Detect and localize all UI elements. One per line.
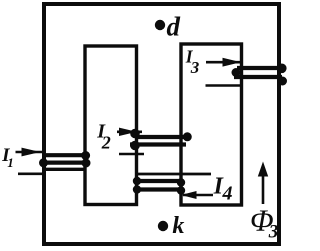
- winding W3 lead-out wire: [206, 84, 242, 87]
- core right window: [181, 44, 242, 205]
- current I4 arrow on lead-in wire: [183, 192, 213, 199]
- current I3 label: [185, 46, 200, 77]
- svg-text:1: 1: [7, 155, 14, 170]
- svg-text:2: 2: [101, 133, 111, 153]
- current I3 arrow on lead-in wire: [206, 58, 242, 66]
- core left window: [85, 46, 137, 205]
- svg-text:3: 3: [190, 58, 200, 77]
- svg-text:4: 4: [222, 183, 233, 205]
- node k dot: [158, 221, 168, 231]
- current I1 arrow on lead-in wire: [16, 148, 45, 156]
- winding W4 turns on middle leg: [133, 177, 184, 194]
- svg-text:k: k: [172, 213, 184, 239]
- node d dot: [155, 20, 165, 30]
- winding W1 lead-out wire: [18, 173, 44, 176]
- current I1 label: [1, 145, 14, 170]
- current I4 label: [213, 173, 233, 204]
- svg-text:3: 3: [268, 221, 279, 242]
- magnetic core outer outline: [44, 4, 279, 244]
- flux label Phi3: [250, 203, 278, 243]
- winding W2 lead-out wire: [119, 153, 144, 156]
- winding W3 turns on right leg: [232, 64, 287, 85]
- winding W2 turns on middle leg: [130, 129, 191, 150]
- winding W4 lead-out wire: [137, 173, 211, 176]
- current I2 label: [96, 121, 111, 153]
- svg-text:d: d: [167, 12, 181, 42]
- current I2 arrow on lead-in wire: [117, 128, 142, 135]
- winding W1 turns on left leg: [40, 152, 91, 170]
- flux Phi3 arrow (up, in right leg): [259, 163, 268, 204]
